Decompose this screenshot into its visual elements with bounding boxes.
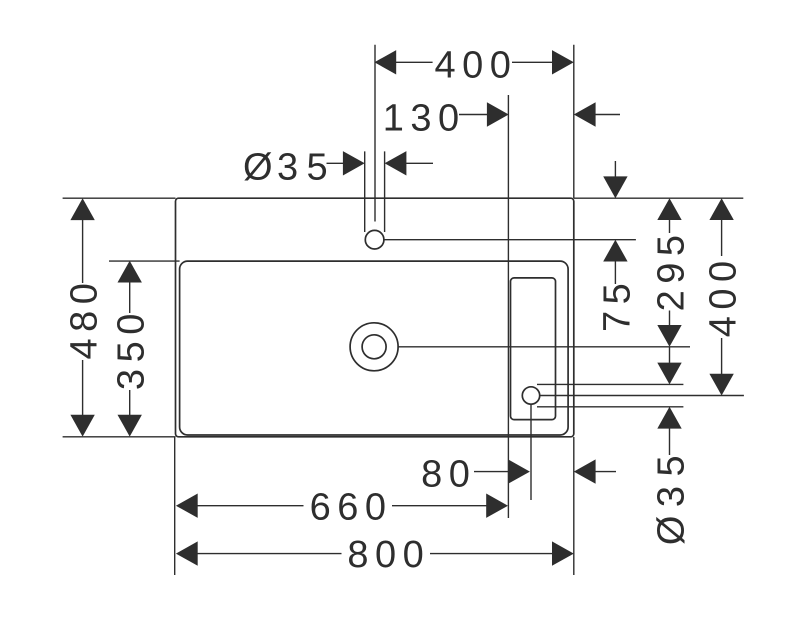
- svg-text:Ø35: Ø35: [651, 449, 693, 545]
- svg-text:400: 400: [434, 44, 517, 86]
- svg-text:130: 130: [383, 98, 466, 140]
- svg-text:295: 295: [651, 228, 693, 311]
- svg-text:400: 400: [703, 254, 745, 337]
- svg-text:800: 800: [347, 534, 430, 576]
- svg-text:480: 480: [64, 277, 106, 360]
- svg-text:660: 660: [310, 487, 393, 529]
- svg-text:75: 75: [596, 277, 638, 332]
- svg-text:350: 350: [111, 307, 153, 390]
- svg-text:80: 80: [421, 454, 476, 496]
- svg-text:Ø35: Ø35: [243, 146, 334, 188]
